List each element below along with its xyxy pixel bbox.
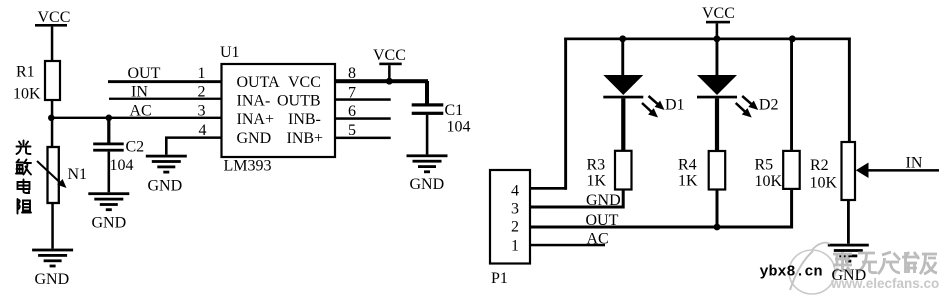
- svg-text:8: 8: [348, 65, 356, 82]
- svg-text:VCC: VCC: [38, 9, 71, 26]
- svg-text:R2: R2: [810, 157, 829, 174]
- svg-text:GND: GND: [35, 271, 70, 288]
- svg-text:ybx8.cn: ybx8.cn: [760, 264, 823, 281]
- svg-text:2: 2: [198, 83, 206, 100]
- svg-text:OUTB: OUTB: [277, 92, 321, 109]
- svg-text:LM393: LM393: [224, 158, 272, 175]
- svg-text:INB+: INB+: [287, 130, 324, 147]
- svg-text:C2: C2: [126, 139, 145, 156]
- svg-text:IN: IN: [906, 155, 923, 172]
- svg-text:104: 104: [447, 119, 471, 136]
- svg-text:OUT: OUT: [586, 212, 619, 229]
- svg-text:3: 3: [511, 201, 519, 218]
- svg-text:AC: AC: [587, 230, 609, 247]
- svg-text:IN: IN: [131, 83, 148, 100]
- svg-text:6: 6: [348, 103, 356, 120]
- svg-text:OUT: OUT: [128, 65, 161, 82]
- svg-text:GND: GND: [237, 130, 272, 147]
- svg-text:U1: U1: [220, 44, 240, 61]
- svg-text:VCC: VCC: [373, 47, 406, 64]
- svg-text:INA-: INA-: [237, 92, 271, 109]
- svg-text:1K: 1K: [678, 173, 698, 190]
- svg-text:P1: P1: [491, 270, 508, 287]
- svg-text:N1: N1: [68, 166, 88, 183]
- svg-text:GND: GND: [410, 176, 445, 193]
- svg-text:C1: C1: [445, 102, 464, 119]
- svg-text:10K: 10K: [13, 86, 41, 103]
- svg-text:1K: 1K: [587, 172, 607, 189]
- svg-text:10K: 10K: [810, 174, 838, 191]
- svg-text:AC: AC: [130, 103, 152, 120]
- svg-text:1: 1: [511, 238, 519, 255]
- svg-text:GND: GND: [832, 267, 867, 284]
- svg-text:5: 5: [348, 122, 356, 139]
- svg-text:R1: R1: [16, 64, 35, 81]
- svg-text:R4: R4: [678, 157, 697, 174]
- svg-text:GND: GND: [92, 215, 127, 232]
- svg-text:7: 7: [348, 84, 356, 101]
- svg-text:GND: GND: [148, 178, 183, 195]
- svg-text:10K: 10K: [755, 173, 783, 190]
- svg-text:GND: GND: [586, 192, 621, 209]
- svg-text:VCC: VCC: [702, 5, 735, 22]
- svg-text:OUTA: OUTA: [237, 74, 281, 91]
- svg-text:1: 1: [198, 65, 206, 82]
- svg-text:2: 2: [511, 219, 519, 236]
- svg-text:R3: R3: [587, 157, 606, 174]
- svg-text:3: 3: [198, 103, 206, 120]
- svg-text:R5: R5: [755, 157, 774, 174]
- svg-text:INA+: INA+: [237, 111, 274, 128]
- svg-text:INB-: INB-: [288, 111, 321, 128]
- svg-text:D2: D2: [759, 97, 779, 114]
- svg-text:D1: D1: [665, 97, 685, 114]
- svg-text:104: 104: [110, 157, 134, 174]
- svg-text:VCC: VCC: [288, 74, 321, 91]
- svg-text:4: 4: [511, 183, 519, 200]
